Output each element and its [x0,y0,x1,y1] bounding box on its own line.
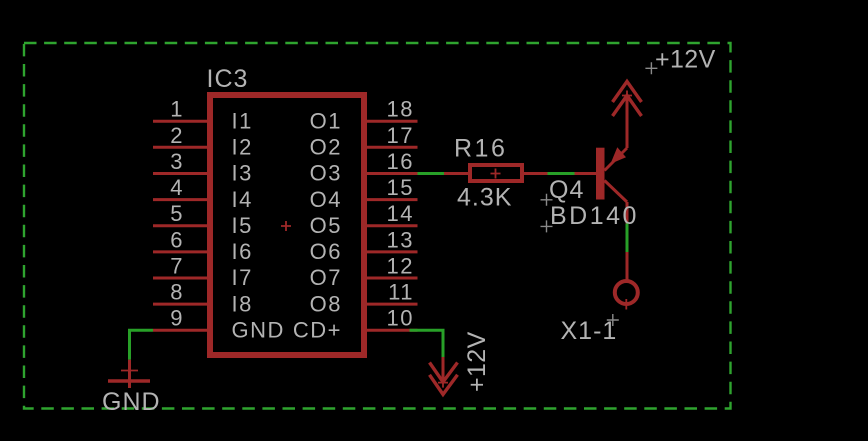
net wire pin9 to GND [130,330,154,360]
pin 17 [364,146,418,149]
resistor R16 origin cross [491,169,501,179]
pin 4 [153,198,210,201]
resistor R16 body [470,165,522,181]
IC U1 box (IC3) [210,95,364,355]
frame (dashed sheet border) [24,43,731,409]
ground GND origin cross [121,370,138,372]
pin 14 [364,224,418,227]
net wire pin10 to +12V horizontal [410,330,444,357]
svg-text:10: 10 [387,306,414,331]
svg-text:O3: O3 [310,161,342,186]
svg-text:CD+: CD+ [293,317,342,342]
pin 1 [153,120,210,123]
svg-text:I2: I2 [232,135,253,160]
svg-text:+12V: +12V [463,331,491,392]
svg-text:1: 1 [170,97,184,122]
resistor R16 right pin [524,172,548,175]
svg-text:5: 5 [170,201,184,226]
transistor Q4 base bar [596,148,605,200]
supply +12V bottom arrow chevron inner [430,363,458,383]
ground GND bar [108,379,150,383]
svg-text:11: 11 [388,280,414,305]
supply +12V top origin cross [622,91,632,101]
svg-text:17: 17 [387,123,414,148]
svg-text:GND: GND [232,317,285,342]
pin 3 [153,172,210,175]
supply +12V bottom origin cross [438,378,448,388]
svg-text:+12V: +12V [655,46,716,74]
svg-text:O8: O8 [310,291,342,316]
svg-text:7: 7 [170,254,184,279]
connector X1-1 pin [626,252,629,281]
svg-text:I4: I4 [232,187,253,212]
+12V top label anchor cross [645,62,657,74]
svg-text:O7: O7 [310,265,342,290]
svg-text:12: 12 [387,254,414,279]
transistor Q4 collector pin [626,202,629,224]
pin 11 [364,303,418,306]
svg-text:I3: I3 [232,161,253,186]
pin 5 [153,224,210,227]
svg-text:O5: O5 [310,213,342,238]
pin 2 [153,146,210,149]
svg-text:Q4: Q4 [549,176,584,204]
svg-text:18: 18 [387,97,414,122]
svg-text:16: 16 [387,149,414,174]
svg-text:15: 15 [387,175,414,200]
svg-text:9: 9 [170,306,184,331]
svg-text:I1: I1 [232,108,253,133]
svg-text:I6: I6 [232,239,253,264]
pin 13 [364,250,418,253]
svg-text:I7: I7 [232,265,253,290]
pin 6 [153,250,210,253]
svg-text:O6: O6 [310,239,342,264]
Q4 label anchor cross [541,194,553,206]
svg-text:X1-1: X1-1 [561,317,618,345]
svg-text:4.3K: 4.3K [457,184,512,212]
ground GND pin [128,360,131,388]
IC3 origin cross [281,221,291,231]
supply +12V bottom arrow chevron outer [430,375,458,395]
svg-text:14: 14 [387,201,414,226]
transistor Q4 emitter pin [626,96,629,149]
svg-text:4: 4 [170,175,184,200]
pin 10 [364,329,418,332]
net N$16 wire left of R16 [418,172,445,175]
svg-text:6: 6 [170,227,184,252]
net wire R16 to Q4 base [548,172,575,175]
connector X1-1 circle [615,281,638,304]
svg-text:O1: O1 [310,108,342,133]
svg-text:IC3: IC3 [207,65,249,93]
pin 7 [153,277,210,280]
transistor Q4 emitter arrow [611,147,627,164]
svg-text:I8: I8 [232,291,253,316]
svg-text:R16: R16 [454,135,507,163]
supply +12V top arrow chevron inner [613,96,642,117]
svg-text:8: 8 [170,280,184,305]
transistor Q4 collector diagonal [605,181,628,203]
pin 15 [364,198,418,201]
svg-text:GND: GND [102,388,161,416]
pin 12 [364,277,418,280]
transistor Q4 emitter diagonal [605,148,628,171]
pin 8 [153,303,210,306]
transistor Q4 base pin [575,172,597,175]
BD140 label anchor cross [541,220,553,232]
svg-text:I5: I5 [232,213,253,238]
pin 18 [364,120,418,123]
svg-text:3: 3 [170,149,184,174]
X1-1 label anchor cross [607,314,619,326]
connector X1-1 origin cross [621,299,631,310]
supply +12V top arrow chevron outer [613,82,642,103]
supply +12V bottom pin [442,357,445,383]
svg-text:O2: O2 [310,135,342,160]
svg-text:13: 13 [387,227,414,252]
net wire Q4 collector to X1-1 [626,224,629,253]
svg-text:2: 2 [170,123,184,148]
pin 9 [153,329,210,332]
svg-text:O4: O4 [310,187,342,212]
pin 16 [364,172,418,175]
resistor R16 left pin [444,172,468,175]
